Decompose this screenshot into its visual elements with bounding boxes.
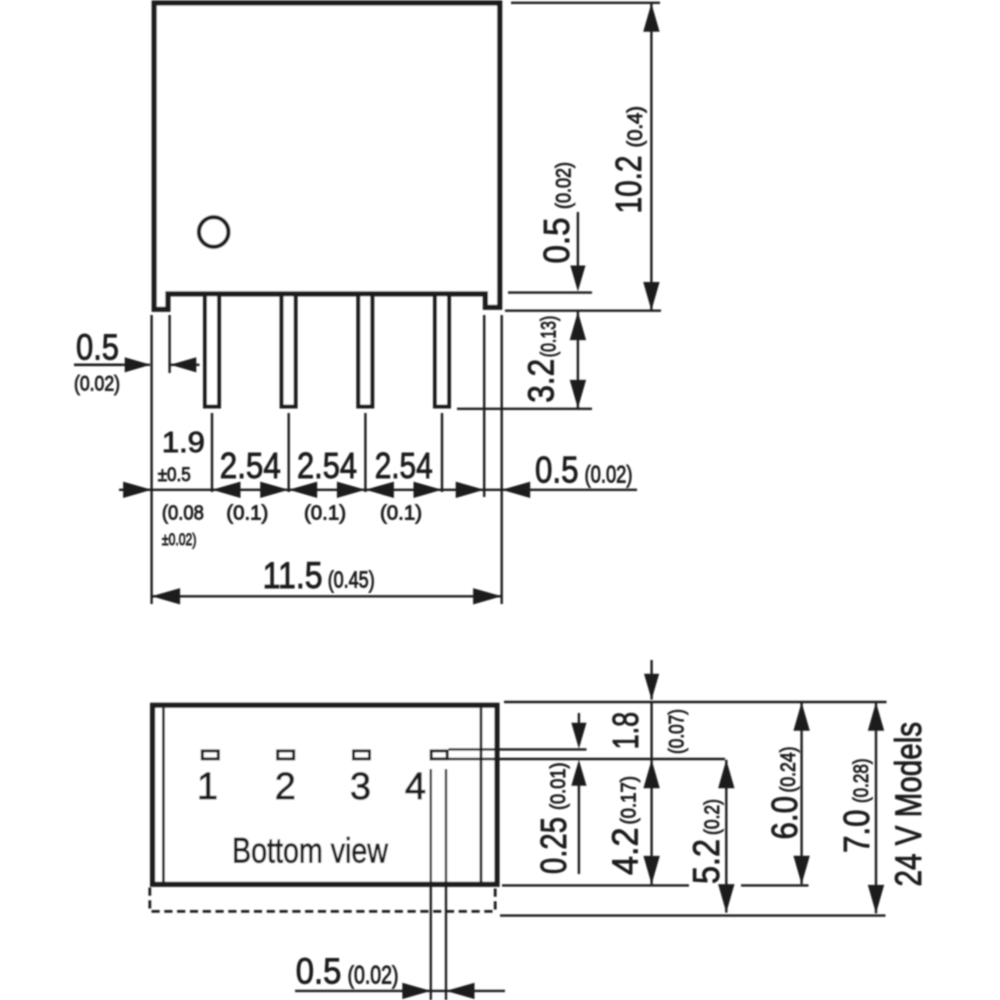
extension line: pin 4 centre	[441, 413, 443, 492]
dimension 4.2 (0.17)	[650, 760, 652, 885]
svg-text:11.5: 11.5	[263, 554, 323, 596]
svg-text:0.5: 0.5	[76, 327, 119, 368]
extension line: pin 2 centre	[288, 413, 290, 492]
dimension 1.8 (0.07) pad inset	[650, 660, 652, 700]
body: bottom view package outline	[153, 705, 497, 884]
svg-text:(0.1): (0.1)	[304, 502, 346, 525]
dimension 0.5 (0.02) standoff height	[577, 212, 579, 267]
dimension 5.2 (0.2)	[725, 760, 727, 913]
dimension 10.2 (0.4) package height	[650, 3, 652, 310]
dimension chain line pin pitch row	[119, 489, 637, 491]
svg-text:(0.1): (0.1)	[226, 502, 268, 525]
svg-text:0.5: 0.5	[296, 951, 342, 992]
extension line: pad 4 top edge right	[449, 748, 587, 750]
svg-text:10.2: 10.2	[608, 156, 649, 214]
svg-text:(0.13): (0.13)	[538, 316, 561, 358]
body: front view package outline with standoff feet	[154, 3, 500, 309]
svg-text:(0.01): (0.01)	[547, 763, 570, 811]
dimension 11.5 (0.45) overall width	[152, 595, 502, 597]
dimension 7.0 (0.28)	[875, 702, 877, 913]
svg-text:(0.02): (0.02)	[553, 162, 576, 209]
svg-text:0.5: 0.5	[536, 218, 577, 264]
bottom view left foot line	[162, 708, 165, 882]
svg-text:(0.45): (0.45)	[328, 567, 375, 593]
extension line: foot bottom right	[505, 310, 661, 312]
svg-text:(0.17): (0.17)	[618, 776, 641, 825]
extension line: pin 3 centre	[364, 413, 366, 492]
extension line: body left edge	[150, 315, 152, 604]
extension line: pad 4 left edge down	[430, 769, 432, 1000]
svg-text:(0.02): (0.02)	[585, 462, 633, 489]
wire: front view pin 2 lead	[282, 289, 296, 407]
svg-text:(0.28): (0.28)	[850, 759, 873, 804]
svg-text:4.2: 4.2	[605, 828, 646, 876]
wire: front view pin 3 lead	[358, 289, 372, 407]
dimension 3.2 (0.13) pin length	[577, 312, 579, 409]
svg-text:2.54: 2.54	[375, 445, 433, 486]
pad pin 4	[431, 751, 447, 759]
extension line: pad 4 right edge down	[445, 769, 447, 1000]
svg-text:0.5: 0.5	[535, 450, 579, 491]
wire: front view pin 4 lead	[435, 289, 449, 407]
svg-text:2.54: 2.54	[220, 445, 281, 486]
svg-text:(0.1): (0.1)	[380, 502, 422, 525]
extension line: body bottom edge right	[508, 291, 592, 293]
leader arrow pointing left at left foot inner edge	[171, 364, 200, 366]
extension line: dashed outline bottom right	[500, 914, 886, 916]
dashed insulation outline below bottom view	[150, 888, 495, 912]
extension line: body right edge	[501, 315, 503, 604]
svg-text:0.25: 0.25	[533, 817, 574, 874]
pad pin 2	[278, 751, 294, 759]
svg-text:1.8: 1.8	[605, 712, 646, 750]
extension line: bottom view top edge right	[504, 701, 887, 703]
dimension 0.25 (0.01) pad thickness	[578, 713, 580, 724]
pad pin 3	[354, 751, 370, 759]
svg-text:3: 3	[350, 766, 371, 808]
svg-text:(0.07): (0.07)	[666, 709, 689, 754]
svg-text:(0.24): (0.24)	[777, 747, 800, 793]
dimension 0.5 (0.02) pin width bottom	[295, 990, 505, 992]
svg-text:3.2: 3.2	[521, 359, 562, 403]
svg-text:(0.08: (0.08	[162, 502, 204, 525]
svg-text:5.2: 5.2	[686, 839, 727, 884]
pin 1 index hole marker	[199, 217, 229, 247]
extension line: left foot inner edge	[168, 315, 170, 373]
extension line: pin 1 centre	[211, 413, 213, 492]
svg-text:(0.02): (0.02)	[348, 962, 399, 990]
svg-text:2: 2	[275, 766, 296, 808]
svg-text:±0.5: ±0.5	[158, 464, 191, 486]
leader arrow pointing right at left foot	[120, 364, 150, 366]
svg-text:1: 1	[197, 766, 218, 808]
extension line: top edge for 10.2 dim	[511, 2, 660, 4]
pad pin 1	[202, 751, 218, 759]
svg-text:Bottom view: Bottom view	[232, 832, 389, 871]
dimension 6.0 (0.24)	[800, 702, 802, 884]
svg-text:±0.02): ±0.02)	[162, 530, 197, 549]
extension line: right foot inner edge	[483, 315, 485, 497]
svg-text:7.0: 7.0	[836, 810, 877, 854]
extension line: pad 4 bottom edge right	[449, 758, 726, 760]
svg-text:24 V Models: 24 V Models	[888, 722, 929, 887]
svg-text:4: 4	[405, 766, 426, 808]
svg-text:(0.4): (0.4)	[624, 106, 647, 148]
svg-text:(0.02): (0.02)	[74, 373, 120, 396]
svg-text:2.54: 2.54	[297, 445, 357, 486]
extension line: bottom view bottom edge right	[502, 884, 689, 886]
svg-text:1.9: 1.9	[162, 427, 205, 459]
svg-text:6.0: 6.0	[764, 796, 805, 840]
wire: front view pin 1 lead	[205, 289, 219, 407]
svg-text:(0.2): (0.2)	[701, 799, 724, 835]
extension line: pin tip level right	[457, 408, 592, 410]
bottom view right foot line	[480, 708, 483, 882]
